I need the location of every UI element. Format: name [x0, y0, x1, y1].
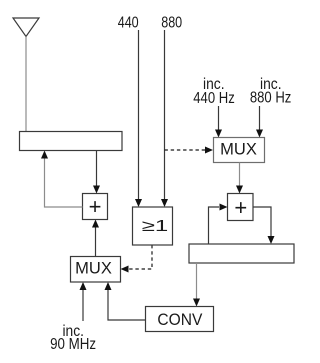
label 880: [161, 15, 182, 32]
wire register2 to CONV: [193, 263, 200, 307]
label 440: [118, 15, 139, 32]
svg-text:880: 880: [161, 15, 182, 32]
wire 440 signal: [135, 30, 142, 207]
svg-text:≥1: ≥1: [142, 218, 169, 235]
block MUX1 (bottom left): [71, 257, 121, 283]
svg-text:880 Hz: 880 Hz: [250, 90, 292, 107]
wire dashed 880 to MUX2 select: [165, 147, 214, 154]
wire MUX1 to adder1: [92, 220, 99, 257]
antenna: [13, 18, 39, 37]
svg-text:MUX: MUX: [220, 141, 257, 159]
svg-text:MUX: MUX: [75, 260, 112, 278]
wire antenna stem: [25, 37, 27, 132]
svg-text:+: +: [234, 195, 247, 220]
block register2 (right rect): [189, 244, 294, 263]
block adder2 (right plus): [228, 194, 254, 221]
wire dashed OR to MUX1 select: [121, 245, 153, 273]
label inc. 880 Hz: [250, 76, 292, 107]
wire CONV to MUX1: [105, 282, 146, 320]
svg-text:+: +: [89, 194, 102, 219]
wire inc440 to MUX2: [215, 106, 222, 138]
wire adder2 to register2: [253, 207, 275, 244]
svg-text:90 MHz: 90 MHz: [50, 336, 96, 353]
block CONV: [146, 307, 214, 332]
block register1 (left rect): [20, 132, 123, 151]
wire register2 feedback to adder2: [209, 204, 228, 245]
block MUX2 (right): [214, 138, 265, 163]
label inc. 440 Hz: [193, 76, 235, 107]
wire inc880 to MUX2: [256, 106, 263, 138]
wire 880 signal: [161, 30, 168, 207]
svg-text:440 Hz: 440 Hz: [193, 90, 235, 107]
block OR gate (ge1): [133, 207, 173, 245]
block adder1 (left plus): [83, 194, 108, 220]
label inc. 90 MHz: [50, 323, 96, 353]
svg-text:CONV: CONV: [157, 311, 202, 329]
wire inc90 to MUX1: [80, 282, 87, 321]
svg-text:440: 440: [118, 15, 139, 32]
wire register1 to adder1: [93, 151, 100, 194]
wire adder1 feedback to register1: [41, 151, 83, 208]
wire MUX2 to adder2: [236, 163, 243, 194]
